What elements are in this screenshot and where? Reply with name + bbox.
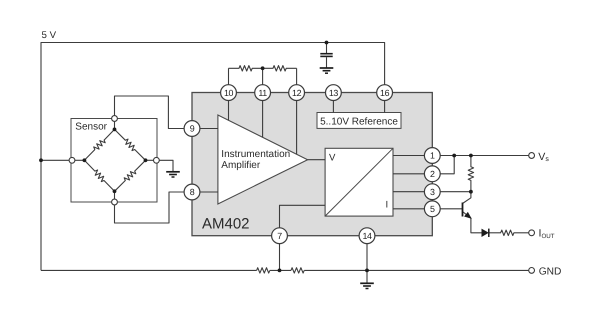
svg-text:8: 8 <box>190 187 195 197</box>
svg-text:Instrumentation: Instrumentation <box>221 149 290 160</box>
svg-text:Sensor: Sensor <box>75 122 107 133</box>
svg-text:13: 13 <box>329 88 339 98</box>
svg-text:3: 3 <box>430 187 435 197</box>
svg-text:1: 1 <box>430 151 435 161</box>
svg-text:7: 7 <box>277 231 282 241</box>
svg-text:12: 12 <box>292 88 302 98</box>
svg-text:2: 2 <box>430 169 435 179</box>
svg-text:14: 14 <box>362 231 372 241</box>
svg-text:11: 11 <box>258 88 267 98</box>
svg-text:16: 16 <box>380 88 390 98</box>
svg-text:5: 5 <box>430 204 435 214</box>
svg-text:V: V <box>329 152 336 163</box>
svg-text:10: 10 <box>224 88 234 98</box>
svg-text:9: 9 <box>190 124 195 134</box>
svg-text:AM402: AM402 <box>202 216 250 233</box>
svg-text:I: I <box>386 200 389 211</box>
svg-text:Amplifier: Amplifier <box>221 160 261 171</box>
svg-text:5 V: 5 V <box>42 30 57 41</box>
svg-text:GND: GND <box>539 266 562 277</box>
svg-text:5..10V Reference: 5..10V Reference <box>320 116 398 127</box>
